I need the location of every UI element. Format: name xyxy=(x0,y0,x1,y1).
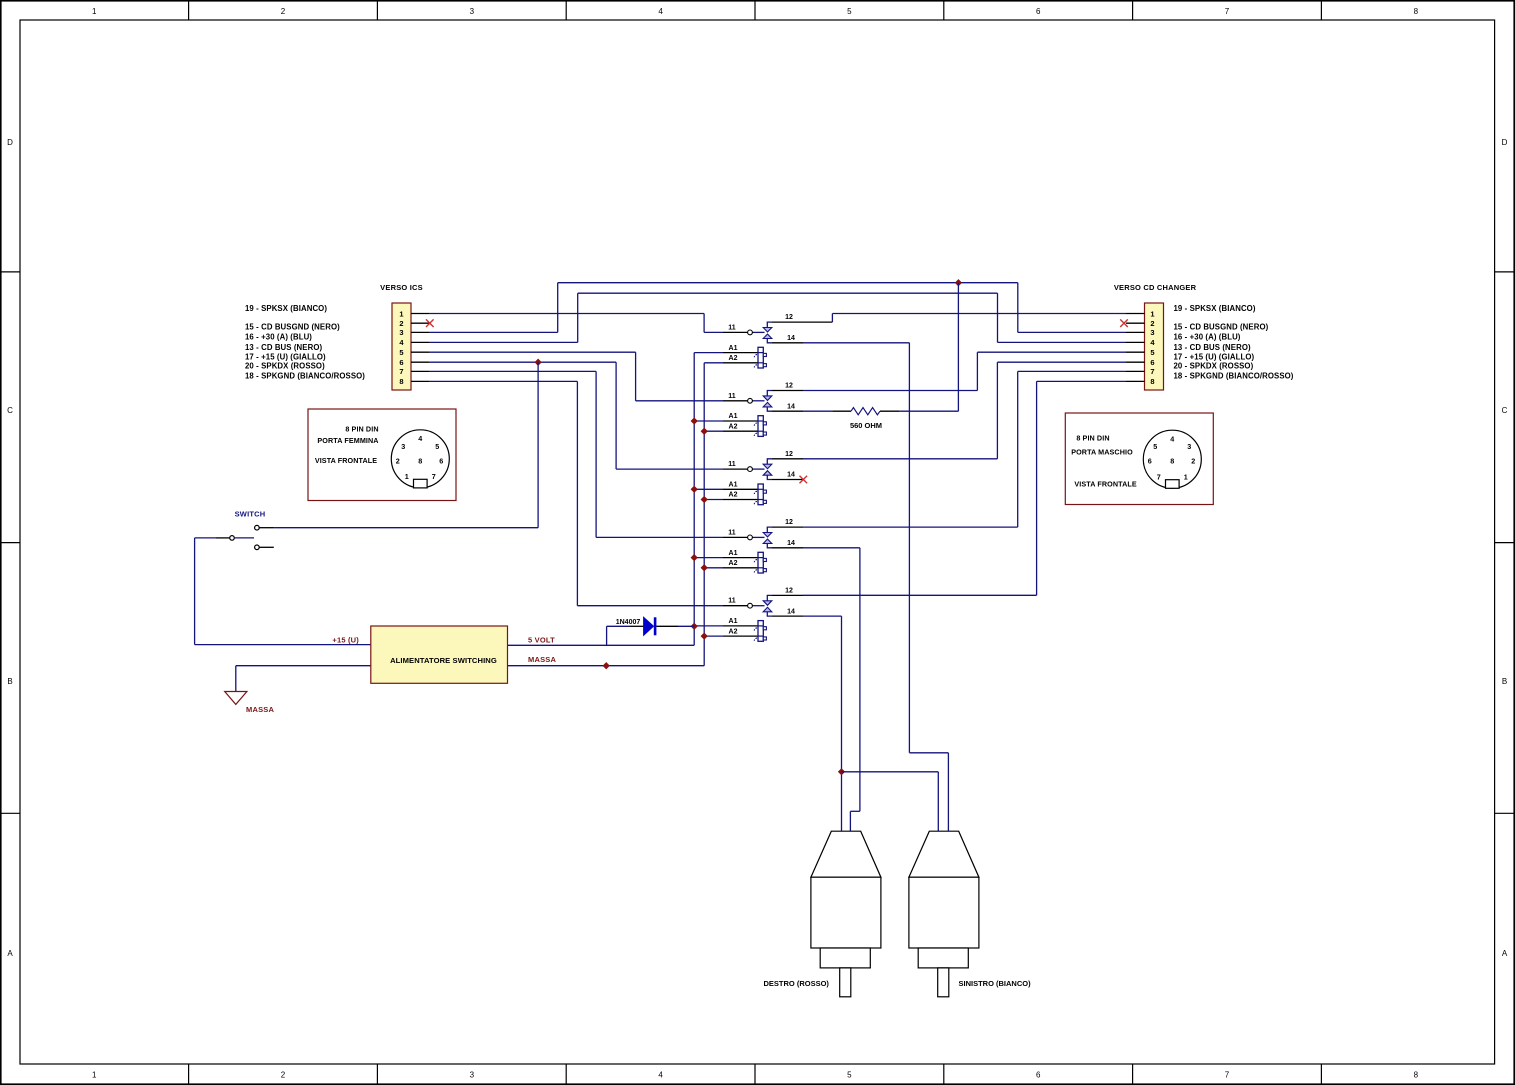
svg-text:14: 14 xyxy=(787,335,795,342)
svg-text:18 - SPKGND (BIANCO/ROSSO): 18 - SPKGND (BIANCO/ROSSO) xyxy=(1174,372,1294,381)
svg-text:16 - +30 (A) (BLU): 16 - +30 (A) (BLU) xyxy=(1174,333,1241,342)
svg-text:PORTA MASCHIO: PORTA MASCHIO xyxy=(1071,447,1133,456)
svg-text:8 PIN DIN: 8 PIN DIN xyxy=(1076,433,1109,442)
svg-text:14: 14 xyxy=(787,472,795,479)
svg-text:VERSO CD CHANGER: VERSO CD CHANGER xyxy=(1114,283,1197,292)
svg-text:A2: A2 xyxy=(729,355,738,362)
svg-text:SWITCH: SWITCH xyxy=(235,509,266,518)
svg-text:6: 6 xyxy=(1036,7,1041,16)
svg-text:20 - SPKDX (ROSSO): 20 - SPKDX (ROSSO) xyxy=(1174,362,1254,371)
svg-text:7: 7 xyxy=(432,472,436,481)
svg-text:1N4007: 1N4007 xyxy=(616,619,641,626)
svg-text:15 - CD BUSGND (NERO): 15 - CD BUSGND (NERO) xyxy=(1174,323,1269,332)
svg-text:19 - SPKSX (BIANCO): 19 - SPKSX (BIANCO) xyxy=(1174,304,1256,313)
svg-text:1: 1 xyxy=(399,309,403,318)
svg-text:5: 5 xyxy=(1153,442,1157,451)
svg-text:3: 3 xyxy=(470,7,475,16)
svg-text:14: 14 xyxy=(787,608,795,615)
svg-text:11: 11 xyxy=(728,529,736,536)
svg-text:D: D xyxy=(1502,138,1508,147)
svg-text:11: 11 xyxy=(728,324,736,331)
svg-text:8: 8 xyxy=(1150,377,1154,386)
svg-text:ALIMENTATORE SWITCHING: ALIMENTATORE SWITCHING xyxy=(390,656,497,665)
svg-text:A2: A2 xyxy=(729,628,738,635)
svg-text:D: D xyxy=(7,138,13,147)
svg-text:6: 6 xyxy=(1036,1070,1041,1079)
svg-text:8: 8 xyxy=(399,377,403,386)
svg-text:3: 3 xyxy=(401,442,405,451)
svg-text:1: 1 xyxy=(1150,309,1154,318)
svg-text:PORTA FEMMINA: PORTA FEMMINA xyxy=(317,436,378,445)
svg-text:4: 4 xyxy=(1170,435,1174,444)
svg-text:6: 6 xyxy=(1148,457,1152,466)
svg-text:6: 6 xyxy=(399,358,403,367)
svg-text:8: 8 xyxy=(1414,7,1419,16)
svg-text:7: 7 xyxy=(399,367,403,376)
svg-text:B: B xyxy=(7,677,12,686)
svg-text:2: 2 xyxy=(281,7,286,16)
svg-text:19 - SPKSX (BIANCO): 19 - SPKSX (BIANCO) xyxy=(245,304,327,313)
svg-text:13 - CD BUS (NERO): 13 - CD BUS (NERO) xyxy=(245,343,322,352)
svg-text:SINISTRO (BIANCO): SINISTRO (BIANCO) xyxy=(959,979,1032,988)
svg-text:C: C xyxy=(1502,406,1508,415)
svg-text:2: 2 xyxy=(1191,457,1195,466)
svg-text:VERSO ICS: VERSO ICS xyxy=(380,283,423,292)
svg-text:A1: A1 xyxy=(729,550,738,557)
svg-text:A: A xyxy=(1502,949,1508,958)
svg-text:7: 7 xyxy=(1225,1070,1230,1079)
svg-text:5: 5 xyxy=(847,7,852,16)
svg-text:1: 1 xyxy=(1184,473,1188,482)
svg-text:20 - SPKDX (ROSSO): 20 - SPKDX (ROSSO) xyxy=(245,362,325,371)
svg-text:13 - CD BUS (NERO): 13 - CD BUS (NERO) xyxy=(1174,343,1251,352)
svg-text:A1: A1 xyxy=(729,482,738,489)
svg-text:8: 8 xyxy=(418,456,422,465)
svg-text:8 PIN DIN: 8 PIN DIN xyxy=(345,425,378,434)
svg-text:16 - +30 (A) (BLU): 16 - +30 (A) (BLU) xyxy=(245,333,312,342)
svg-text:3: 3 xyxy=(1187,442,1191,451)
svg-text:5: 5 xyxy=(1150,348,1154,357)
svg-text:4: 4 xyxy=(658,1070,663,1079)
svg-text:12: 12 xyxy=(785,519,793,526)
svg-text:5: 5 xyxy=(435,442,439,451)
svg-text:12: 12 xyxy=(785,588,793,595)
svg-text:7: 7 xyxy=(1150,367,1154,376)
svg-text:2: 2 xyxy=(396,456,400,465)
svg-text:14: 14 xyxy=(787,540,795,547)
svg-text:A: A xyxy=(7,949,13,958)
svg-text:4: 4 xyxy=(658,7,663,16)
svg-text:3: 3 xyxy=(399,328,403,337)
svg-text:DESTRO (ROSSO): DESTRO (ROSSO) xyxy=(764,979,830,988)
svg-text:B: B xyxy=(1502,677,1507,686)
svg-text:1: 1 xyxy=(405,472,409,481)
svg-text:MASSA: MASSA xyxy=(528,655,556,664)
svg-text:17 - +15 (U) (GIALLO): 17 - +15 (U) (GIALLO) xyxy=(245,352,326,361)
svg-text:7: 7 xyxy=(1225,7,1230,16)
svg-text:8: 8 xyxy=(1414,1070,1419,1079)
svg-text:4: 4 xyxy=(418,434,422,443)
svg-text:3: 3 xyxy=(470,1070,475,1079)
svg-text:5: 5 xyxy=(847,1070,852,1079)
svg-text:MASSA: MASSA xyxy=(246,705,274,714)
svg-text:VISTA FRONTALE: VISTA FRONTALE xyxy=(315,456,377,465)
svg-text:14: 14 xyxy=(787,403,795,410)
svg-text:6: 6 xyxy=(1150,358,1154,367)
svg-text:12: 12 xyxy=(785,451,793,458)
svg-text:12: 12 xyxy=(785,314,793,321)
svg-text:A1: A1 xyxy=(729,618,738,625)
svg-text:6: 6 xyxy=(439,456,443,465)
svg-text:C: C xyxy=(7,406,13,415)
svg-text:12: 12 xyxy=(785,383,793,390)
svg-text:A2: A2 xyxy=(729,492,738,499)
svg-text:560 OHM: 560 OHM xyxy=(850,421,882,430)
svg-text:8: 8 xyxy=(1170,457,1174,466)
svg-text:A1: A1 xyxy=(729,345,738,352)
svg-text:11: 11 xyxy=(728,393,736,400)
svg-text:2: 2 xyxy=(1150,319,1154,328)
svg-text:A2: A2 xyxy=(729,423,738,430)
svg-text:1: 1 xyxy=(92,7,97,16)
svg-text:11: 11 xyxy=(728,461,736,468)
svg-text:A1: A1 xyxy=(729,413,738,420)
svg-text:7: 7 xyxy=(1157,473,1161,482)
svg-text:1: 1 xyxy=(92,1070,97,1079)
svg-text:17 - +15 (U) (GIALLO): 17 - +15 (U) (GIALLO) xyxy=(1174,352,1255,361)
svg-text:+15 (U): +15 (U) xyxy=(332,635,359,644)
svg-text:5: 5 xyxy=(399,348,403,357)
svg-text:15 - CD BUSGND (NERO): 15 - CD BUSGND (NERO) xyxy=(245,323,340,332)
svg-text:VISTA FRONTALE: VISTA FRONTALE xyxy=(1074,480,1136,489)
svg-text:2: 2 xyxy=(399,319,403,328)
svg-text:2: 2 xyxy=(281,1070,286,1079)
svg-text:18 - SPKGND (BIANCO/ROSSO): 18 - SPKGND (BIANCO/ROSSO) xyxy=(245,372,365,381)
svg-text:3: 3 xyxy=(1150,328,1154,337)
svg-text:A2: A2 xyxy=(729,560,738,567)
svg-text:5 VOLT: 5 VOLT xyxy=(528,635,555,644)
svg-text:11: 11 xyxy=(728,598,736,605)
